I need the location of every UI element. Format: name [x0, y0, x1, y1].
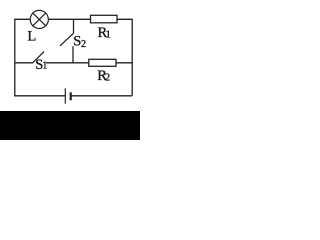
wire: middle wire from S1 to R2 with junction node B at S2 bottom: [46, 62, 89, 64]
wire: top wire left segment (battery loop top-left corner to lamp): [15, 19, 30, 63]
svg-text:L: L: [27, 29, 36, 45]
wire: S2 bottom lead: [72, 46, 74, 63]
switch S1 blade: [33, 52, 44, 63]
svg-text:2: 2: [81, 39, 86, 50]
resistor R2: [89, 59, 116, 66]
svg-text:2: 2: [105, 73, 110, 84]
wire: middle wire right of R2: [116, 62, 132, 64]
wire: bottom wire right of battery: [71, 95, 133, 97]
wire: left vertical lower segment: [14, 63, 16, 96]
svg-text:1: 1: [106, 30, 111, 41]
lamp L (circle with X): [30, 10, 48, 28]
wire: top wire right of R1 and right vertical: [117, 19, 132, 96]
black bar at bottom: [0, 111, 140, 140]
battery long plate (+): [64, 88, 66, 103]
wire: bottom wire left of battery: [15, 94, 66, 97]
wire: S2 top lead: [73, 19, 75, 33]
wire: middle wire left segment to S1: [15, 62, 33, 64]
battery short plate (-): [70, 92, 72, 100]
wire: top wire from lamp to R1, junction at node A: [48, 18, 90, 20]
resistor R1: [91, 15, 118, 22]
switch S2 blade: [60, 33, 74, 46]
